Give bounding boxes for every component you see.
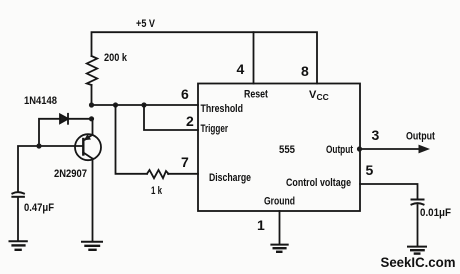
diode D1 1N4148 bbox=[60, 114, 68, 124]
wire threshold node line to pin 6 bbox=[92, 104, 199, 106]
svg-text:1N4148: 1N4148 bbox=[24, 95, 57, 107]
output arrowhead bbox=[419, 145, 431, 154]
svg-text:7: 7 bbox=[181, 154, 189, 170]
junction pin 3 node bbox=[357, 146, 362, 151]
junction node A bbox=[89, 102, 94, 107]
wire base line bbox=[18, 146, 83, 192]
pin 5 number label bbox=[366, 162, 374, 178]
capacitor C1 0.47uF bbox=[12, 192, 24, 197]
pin 2 number label bbox=[186, 113, 194, 129]
svg-text:Output: Output bbox=[406, 131, 435, 143]
svg-text:8: 8 bbox=[301, 63, 309, 79]
wire discharge branch down bbox=[116, 105, 148, 174]
label Ground bbox=[264, 196, 295, 208]
junction node C bbox=[141, 102, 146, 107]
label R2 value 1 k bbox=[151, 185, 163, 197]
pin 6 number label bbox=[181, 86, 189, 102]
watermark SeekIC.com bbox=[381, 254, 456, 270]
wire output pin 3 bbox=[359, 148, 420, 150]
svg-text:4: 4 bbox=[237, 61, 245, 77]
capacitor C2 0.01uF bbox=[412, 200, 424, 205]
op IC U1 555 box bbox=[198, 84, 360, 212]
wire diode cathode to emitter node bbox=[68, 118, 92, 120]
ground under C1 bbox=[10, 241, 27, 250]
svg-text:Trigger: Trigger bbox=[201, 123, 229, 135]
wire pin 4 reset drop bbox=[253, 32, 255, 83]
wire trigger to pin 2 bbox=[144, 105, 198, 130]
junction diode-emitter node bbox=[89, 116, 94, 121]
svg-text:SeekIC.com: SeekIC.com bbox=[381, 254, 456, 270]
label Trigger bbox=[201, 123, 229, 135]
svg-text:0.47μF: 0.47μF bbox=[24, 202, 54, 214]
label 555 bbox=[279, 144, 295, 156]
label Q1 2N2907 bbox=[54, 168, 87, 180]
resistor R1 200k bbox=[87, 56, 97, 85]
svg-text:Threshold: Threshold bbox=[201, 103, 244, 115]
svg-text:5: 5 bbox=[366, 162, 374, 178]
svg-text:CC: CC bbox=[317, 92, 329, 102]
wire +5V rail bbox=[92, 32, 318, 83]
svg-text:+5 V: +5 V bbox=[136, 18, 156, 30]
wire diode anode segment bbox=[39, 119, 60, 146]
wire C2 to ground bbox=[417, 205, 419, 246]
wire C1 to ground bbox=[17, 198, 19, 241]
wire pin 1 to ground bbox=[279, 211, 281, 244]
ground under C2 bbox=[408, 247, 426, 254]
label Control voltage bbox=[286, 177, 351, 189]
svg-text:Control voltage: Control voltage bbox=[286, 177, 351, 189]
wire control voltage pin 5 bbox=[360, 184, 418, 199]
svg-text:200 k: 200 k bbox=[104, 52, 128, 64]
wire collector to ground bbox=[92, 159, 94, 242]
pin 8 number label bbox=[301, 63, 309, 79]
resistor R2 1k bbox=[147, 170, 169, 178]
transistor Q1 2N2907 bbox=[75, 134, 101, 160]
pin 3 number label bbox=[372, 127, 380, 143]
ground under transistor bbox=[82, 242, 102, 250]
svg-text:3: 3 bbox=[372, 127, 380, 143]
svg-text:1: 1 bbox=[257, 217, 265, 233]
label Output outside bbox=[406, 131, 435, 143]
label C2 0.01uF bbox=[420, 207, 451, 219]
svg-text:2: 2 bbox=[186, 113, 194, 129]
label R1 value 200 k bbox=[104, 52, 128, 64]
svg-text:6: 6 bbox=[181, 86, 189, 102]
svg-text:1 k: 1 k bbox=[151, 185, 163, 197]
label Discharge bbox=[209, 172, 251, 184]
pin 7 number label bbox=[181, 154, 189, 170]
node +5V label bbox=[136, 18, 156, 30]
label D1 1N4148 bbox=[24, 95, 57, 107]
junction node B bbox=[113, 102, 118, 107]
svg-text:555: 555 bbox=[279, 144, 295, 156]
ground under pin 1 bbox=[271, 245, 287, 252]
junction base-diode node bbox=[36, 143, 41, 148]
wire emitter vertical bbox=[92, 119, 94, 135]
label VCC bbox=[309, 89, 329, 102]
svg-text:2N2907: 2N2907 bbox=[54, 168, 87, 180]
svg-text:Discharge: Discharge bbox=[209, 172, 251, 184]
pin 4 number label bbox=[237, 61, 245, 77]
svg-text:Reset: Reset bbox=[244, 89, 268, 101]
wire resistor R2 to pin 7 bbox=[168, 173, 198, 175]
wire resistor bottom to node bbox=[91, 85, 93, 105]
svg-text:Output: Output bbox=[326, 144, 353, 156]
svg-text:Ground: Ground bbox=[264, 196, 295, 208]
label Threshold bbox=[201, 103, 244, 115]
label C1 0.47uF bbox=[24, 202, 54, 214]
label Output inside bbox=[326, 144, 353, 156]
pin 1 number label bbox=[257, 217, 265, 233]
label Reset bbox=[244, 89, 268, 101]
svg-text:0.01μF: 0.01μF bbox=[420, 207, 451, 219]
